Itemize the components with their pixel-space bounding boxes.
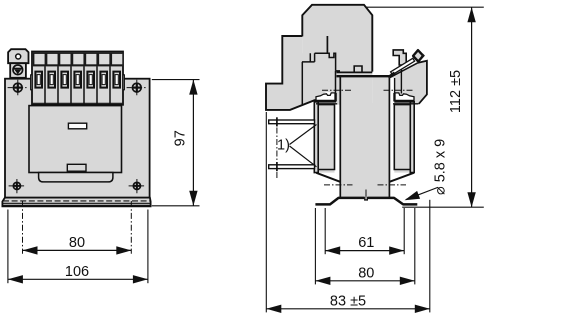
right latch white notch [395, 93, 414, 101]
dim 83 line [266, 308, 430, 310]
bracket lower block [10, 63, 26, 78]
lower diagonals [316, 173, 340, 182]
screw head [413, 50, 423, 61]
svg-text:112 ±5: 112 ±5 [448, 70, 464, 113]
terminal caps [34, 54, 122, 64]
svg-text:80: 80 [69, 235, 85, 251]
block inner steps [302, 36, 327, 105]
rod 2 [269, 165, 315, 169]
rod 1 [269, 120, 315, 124]
dim 97 extension top [152, 79, 200, 81]
left latch borders [316, 100, 336, 102]
dim 97 line [192, 80, 194, 206]
screw shaft [391, 58, 415, 74]
dim 80 (front) extensions [22, 201, 24, 254]
upper-left screw [8, 80, 29, 96]
coil window front [29, 106, 122, 173]
base plate [2, 198, 150, 207]
dim 112 line [471, 7, 473, 207]
dome bottom edge [337, 71, 373, 73]
svg-text:1): 1) [277, 138, 290, 154]
svg-text:⌀ 5.8 x 9: ⌀ 5.8 x 9 [433, 139, 449, 195]
coil left fill [314, 102, 334, 173]
dome outline [302, 5, 372, 72]
bracket hole [16, 54, 21, 59]
centerline left latch [322, 89, 352, 91]
dim 61 line [325, 250, 404, 252]
terminal block outer [32, 52, 123, 105]
dim 106 line [8, 278, 148, 280]
mounting foot [315, 198, 364, 205]
gray masses (fills only) [266, 5, 427, 198]
dim 112 top extension [367, 6, 484, 8]
left latch white notch [316, 93, 335, 101]
svg-text:97: 97 [173, 130, 189, 146]
base inner line [3, 202, 150, 204]
centerline right latch [384, 89, 413, 91]
lower centerline [324, 184, 353, 186]
svg-text:61: 61 [358, 235, 374, 251]
base bottom thick [2, 205, 150, 207]
bracket screw [13, 65, 23, 75]
clamp outline [418, 61, 427, 104]
lower core fill [340, 103, 389, 197]
terminal block side tabs [31, 75, 32, 90]
coil right fill [394, 102, 414, 173]
upper-right screw [127, 80, 148, 96]
dia leader [406, 188, 438, 200]
dome bottom tab [354, 66, 362, 72]
dim 106 extensions [7, 210, 9, 284]
upper core fill [336, 53, 372, 104]
svg-text:80: 80 [358, 265, 374, 281]
clamp fill [390, 61, 427, 104]
dim 80 (side) line [315, 280, 414, 282]
dim 97 extension bottom [152, 205, 200, 207]
rod centerline [276, 128, 278, 162]
right latch borders [394, 100, 414, 102]
base dashed line [3, 200, 150, 202]
terminal block bottom line [33, 102, 123, 104]
core verticals [339, 77, 341, 197]
bottom tab [67, 164, 86, 171]
svg-text:106: 106 [65, 264, 89, 280]
label window [68, 123, 86, 129]
bottom tray [39, 173, 113, 182]
front body [5, 79, 150, 198]
leader 1 [290, 125, 317, 145]
coil left block outline [314, 102, 334, 173]
block outline [266, 36, 326, 110]
terminal slots [35, 72, 120, 88]
top-left bracket upper block [8, 49, 28, 63]
dim 80 (side) extensions [314, 208, 316, 284]
lower-left mounting screw [9, 179, 26, 193]
block fill [266, 36, 341, 110]
dim 83 extensions [265, 112, 267, 312]
block hook [327, 36, 340, 71]
terminal dividers [45, 66, 110, 105]
screw shaft foot [388, 73, 394, 78]
dim 80 (front) line [23, 249, 132, 251]
core top plate [337, 75, 390, 77]
screw head nub [421, 54, 425, 58]
coil right block outline [394, 102, 414, 173]
svg-text:83 ±5: 83 ±5 [330, 293, 366, 309]
terminal caps band [33, 52, 122, 66]
clamp top slant [390, 63, 418, 78]
clamp tab [393, 50, 406, 65]
dome fill [302, 5, 372, 72]
lower-right mounting screw [129, 179, 146, 193]
dim 112 bottom extension [402, 206, 484, 208]
dim 61 extensions [324, 208, 326, 254]
leader 2 [290, 146, 317, 167]
